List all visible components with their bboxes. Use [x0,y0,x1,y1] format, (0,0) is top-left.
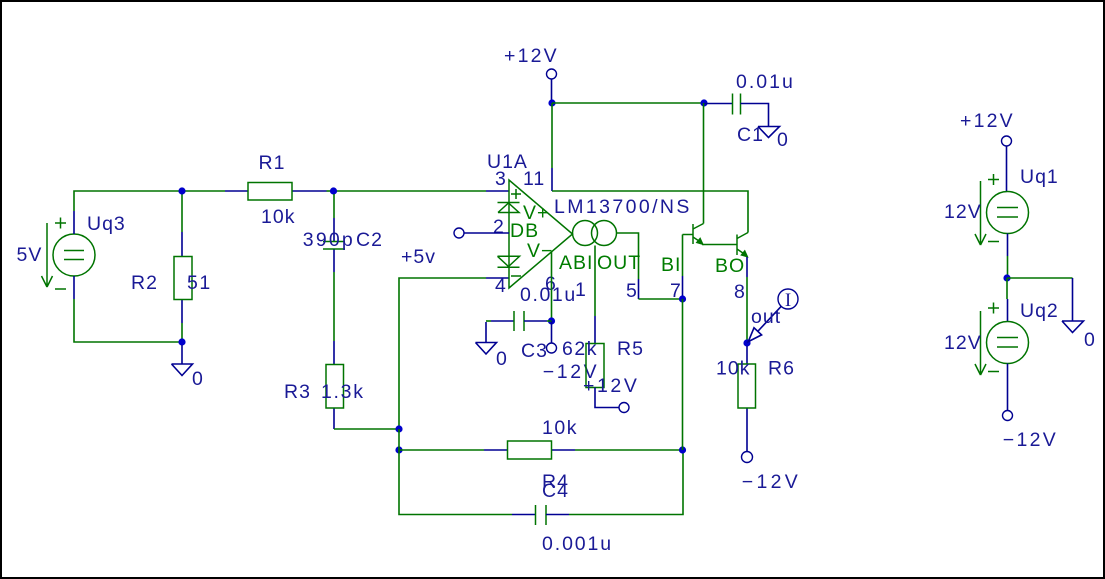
wire pin5 to node F [639,298,683,300]
junction at rail right [700,99,707,106]
terminal -12V pin6 [547,343,557,353]
current mirror circle ABI [573,221,598,246]
U1A labels [487,151,745,277]
svg-text:R6: R6 [768,358,795,380]
capacitor C4 [512,452,683,555]
svg-text:+12V: +12V [583,375,639,397]
ground at C3 [476,322,508,370]
svg-text:12V: 12V [944,201,982,223]
svg-text:2: 2 [493,216,505,238]
wire mid node to ground [1007,277,1073,279]
pin 1 lead [594,316,596,344]
pin 11 lead [551,168,553,191]
diode DB bottom [498,256,520,267]
svg-text:5: 5 [626,280,638,302]
voltage pin out arrow [748,306,781,342]
svg-text:C3: C3 [521,340,548,362]
terminal +12V right [1002,136,1012,146]
svg-text:+5v: +5v [401,246,436,268]
current mirror circle OUT [592,221,617,246]
wire Uq3 top to rail [74,191,225,211]
pin 11 wire from rail [551,103,553,168]
svg-text:12V: 12V [944,332,982,354]
svg-text:+12V: +12V [960,110,1015,132]
op-amp U1A triangle [509,180,573,288]
wire +5v vertical and to pin 4 [399,278,486,429]
voltage source Uq2 [944,300,1059,375]
svg-text:R2: R2 [131,272,158,294]
pin 7 wire BI [682,235,684,277]
svg-text:−12V: −12V [1003,429,1058,451]
+12V top terminal [504,45,559,103]
svg-text:V−: V− [527,240,553,262]
pin 6 lead to -12V terminal [551,321,553,343]
svg-text:8: 8 [734,281,746,303]
lead into Uq2 [1007,299,1009,322]
svg-text:DB: DB [510,220,539,242]
svg-text:0: 0 [1084,329,1096,351]
svg-text:out: out [751,306,781,328]
transistor Q2 buffer output [737,233,749,258]
node E junction [679,446,686,453]
svg-text:0: 0 [496,348,508,370]
svg-text:11: 11 [523,168,545,190]
pin 8 lead BO [746,257,748,277]
pin 3 lead [486,190,509,192]
resistor R5 [562,338,644,408]
svg-text:ABI: ABI [559,252,593,274]
svg-text:4: 4 [495,275,507,297]
resistor R2 [131,194,212,342]
svg-text:0: 0 [192,368,204,390]
wire mid node to Uq2 [1006,278,1008,299]
resistor R4 [399,417,683,493]
wire R3 bottom to node C [334,428,399,430]
ground right 0 [1062,278,1096,351]
svg-text:R3: R3 [284,381,311,403]
terminal -12V right [1003,411,1013,421]
svg-text:10k: 10k [716,358,750,380]
pin 2 lead [464,232,509,234]
diode DB top [498,203,520,213]
svg-text:0: 0 [777,129,789,151]
pin 5 lead [638,279,640,299]
wire R1 to node B [327,190,334,192]
svg-text:−12V: −12V [742,471,801,493]
svg-text:BO: BO [715,255,745,277]
svg-text:Uq3: Uq3 [87,213,126,235]
svg-text:62k: 62k [562,338,598,360]
svg-text:U1A: U1A [487,151,528,173]
+12V rail wire [552,102,704,104]
svg-text:10k: 10k [261,206,295,228]
current meter I [778,289,798,311]
node D junction [395,446,402,453]
node G junction [548,317,555,324]
lead terminal to Uq1 [1006,146,1008,192]
capacitor C1 [704,71,795,146]
capacitor C2 [303,194,383,341]
Q1 emitter to Q2 base wire [702,244,737,246]
mid node junction [1003,274,1010,281]
svg-text:+12V: +12V [504,45,559,67]
svg-text:1.3k: 1.3k [321,381,365,403]
pin 5 wire OUT [617,233,639,279]
out node junction [743,339,750,346]
svg-text:0.01u: 0.01u [736,71,795,93]
node C junction [395,425,402,432]
terminal -12V R6 [742,452,753,463]
svg-text:5V: 5V [17,244,43,266]
V+ wire to BO collector [552,191,748,233]
pin 7 lead [682,276,684,299]
wire node B to pin 3 [334,190,487,192]
wire node C to node D to C4 [399,429,512,515]
pin 6 wire V- [551,252,553,321]
pin 1 wire ABI [594,246,596,317]
pin number labels [493,168,746,303]
node A junction [178,187,185,194]
capacitor C3 [486,284,577,362]
svg-text:Uq2: Uq2 [1020,300,1059,322]
svg-text:51: 51 [187,272,212,294]
svg-text:C4: C4 [542,480,569,502]
svg-text:OUT: OUT [597,252,641,274]
wire node F to node E [682,299,684,450]
terminal +12V R5 [619,403,629,413]
node F junction [679,295,686,302]
svg-text:10k: 10k [542,417,578,439]
junction at rail left [548,99,555,106]
svg-text:I: I [785,290,791,311]
svg-text:BI: BI [661,254,681,276]
pin 4 lead [486,277,509,279]
svg-text:R5: R5 [617,338,644,360]
lead Uq1 bottom [1007,234,1009,257]
transistor Q1 buffer input [683,224,705,246]
ground left 0 [172,345,204,390]
Q1 collector wire to rail [703,103,705,224]
voltage source Uq1 [944,166,1059,245]
ground at C1 [758,127,789,152]
svg-text:C2: C2 [356,229,383,251]
svg-text:0.001u: 0.001u [542,533,613,555]
pin 8 wire to out node [746,277,748,343]
lead Uq2 bottom [1007,364,1009,411]
svg-text:0.01u: 0.01u [520,284,577,306]
resistor R1 [225,152,327,228]
node B junction [330,187,337,194]
svg-text:Uq1: Uq1 [1020,166,1059,188]
wire Uq1 to mid node [1007,256,1009,278]
voltage source Uq3 [17,211,126,299]
bottom node junction [178,338,185,345]
terminal DB input [454,228,464,238]
svg-text:390p: 390p [303,229,355,251]
svg-text:3: 3 [495,168,507,190]
resistor R3 [284,341,365,429]
svg-text:R1: R1 [259,152,286,174]
svg-text:LM13700/NS: LM13700/NS [554,196,692,218]
wire Uq3 bottom [74,299,182,342]
resistor R6 [716,346,795,451]
